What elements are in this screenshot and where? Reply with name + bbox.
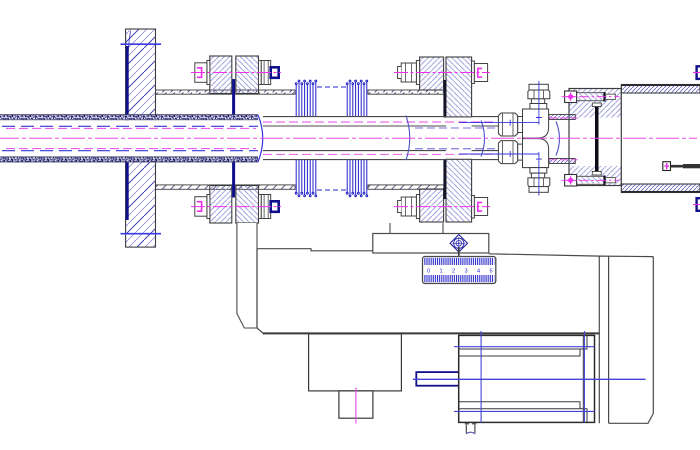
elbow fitting top [498, 84, 549, 138]
inner pipe top centerline [263, 121, 497, 123]
motor end cap inner line [582, 335, 584, 422]
flange pair F1 bottom left block [210, 186, 232, 224]
flange pair F1 bottom right block [236, 186, 259, 224]
flange pair F1 bottom bolt head [195, 197, 207, 217]
jacket hidden line bottom (blue dashed) [2, 150, 258, 152]
inner pipe hidden bore lines [415, 128, 497, 149]
jacket inner pipe centerline bottom (magenta dashed) [6, 148, 256, 150]
diaphragm stack [592, 103, 601, 175]
left flange thick weld edge [126, 46, 129, 220]
flange pair F2 bottom bolt centerline [394, 206, 490, 208]
flange pair F2 top right washer [472, 61, 475, 84]
left flange weld seam curve [128, 31, 131, 88]
main axis centerline (magenta) [0, 137, 697, 139]
bottom support arm (left segment) [156, 185, 296, 189]
flange pair F1 bottom left washer [207, 195, 210, 219]
indicator needle [457, 247, 460, 279]
flange pair F1 bottom bolt protruding end [271, 201, 279, 212]
motor vertical line right (blue) [583, 331, 585, 423]
flange pair F2 top right magenta socket [478, 68, 482, 77]
moving flange plate weld edge top [232, 79, 235, 120]
motor bottom cap lines [459, 402, 587, 423]
flange pair F1 bottom nut [261, 195, 270, 219]
support box under housing [309, 334, 402, 391]
jacket break arc [258, 115, 263, 162]
elbow bottom centerlines (blue) [459, 151, 542, 196]
flange pair F1 bottom right washer [259, 195, 262, 219]
flange pair F1 bottom bolt head magenta socket [197, 202, 202, 212]
motor axis line (blue) [413, 378, 646, 380]
position scale ruler [423, 257, 496, 284]
cylinder bolt bottom head [565, 175, 577, 187]
bellows hidden line top [317, 86, 346, 88]
bellows group 2 bottom [346, 160, 367, 197]
svg-text:5: 5 [489, 269, 492, 275]
flange pair F1 bottom bolt centerline [191, 206, 281, 208]
flange pair F2 top left block [420, 57, 444, 90]
flange pair F2 bottom left block [420, 189, 444, 222]
flange pair F1 top right washer [259, 61, 262, 85]
bellows group 2 top [346, 80, 367, 117]
flange pair F2 top left nut [398, 63, 417, 82]
svg-text:3: 3 [464, 269, 467, 275]
flange pair F1 top right block [236, 56, 259, 94]
flange pair F1 top nut [261, 61, 270, 85]
flange pair F2 top right nut [474, 64, 487, 82]
flange pair F1 top bolt protruding end [271, 67, 279, 78]
elbow top centerlines (blue) [459, 81, 542, 126]
flange pair F2 bottom right magenta socket [478, 202, 482, 211]
cylinder top wall (hatched) [621, 85, 700, 94]
flange pair F1 top bolt head magenta socket [197, 68, 202, 78]
flange pair F2 bottom left washer [416, 195, 419, 219]
left flange bottom bolt centerline [121, 233, 162, 235]
svg-text:4: 4 [477, 269, 480, 275]
top support arm (right segment) [368, 90, 446, 94]
piston screw [663, 162, 700, 171]
cylinder inlet stub top (hatched) [549, 115, 575, 120]
support box lower [339, 391, 373, 418]
motor coupler [416, 372, 460, 386]
left flange top bolt centerline [121, 43, 162, 45]
flange pair F2 top left washer [416, 61, 419, 85]
pipe break arc mid [406, 116, 410, 161]
flange pair F2 bottom left nut [398, 197, 417, 216]
cylinder bore break arc [556, 122, 560, 156]
flange pair F2 top right block [446, 57, 472, 117]
stub centerline bottom [549, 159, 578, 161]
right end partial bolt bottom [693, 198, 700, 211]
cylinder flange inner face [620, 93, 622, 184]
gearbox housing outline [257, 249, 653, 424]
motor cable gland foot [465, 424, 476, 434]
cylinder bolt bottom centerline [562, 179, 620, 181]
cylinder inlet stub bottom (hatched) [549, 159, 575, 164]
cylinder bolt top centerline [562, 96, 620, 98]
cylinder bottom wall (hatched) [621, 184, 700, 193]
jacket tube bottom wall (stippled) [0, 157, 258, 163]
cylinder bolt top head [565, 91, 577, 103]
flange neck left line [389, 223, 391, 234]
housing bottom edge [263, 332, 599, 334]
svg-text:1: 1 [439, 269, 442, 275]
flange pair F2 bottom right block [446, 159, 472, 222]
jacket tube top wall (stippled) [0, 115, 258, 121]
stub centerline top [549, 117, 578, 119]
cylinder bolt top channel [577, 92, 616, 102]
flange pair F2 top bolt centerline [394, 72, 490, 74]
flange pair F1 top bolt head [195, 63, 207, 83]
adjuster knob [450, 235, 467, 252]
bellows group 1 bottom [295, 160, 316, 197]
flange pair F2 bottom dark weld line [443, 160, 446, 200]
flange pair F1 top left block [210, 56, 232, 94]
flange neck right line [442, 223, 444, 234]
inner pipe walls [263, 117, 498, 160]
flange pair F2 bottom right nut [474, 198, 487, 216]
flange pair F1 top bolt centerline [191, 72, 281, 74]
flange pair F2 bottom right washer [472, 196, 475, 219]
motor tie-rod line bottom (blue) [454, 410, 595, 412]
bellows hidden line bottom [317, 189, 346, 191]
moving flange plate weld edge bottom [232, 157, 235, 198]
svg-text:0: 0 [427, 269, 430, 275]
motor vertical line left (blue) [480, 331, 482, 423]
cylinder flange (hatched) [569, 89, 621, 186]
jacket inner pipe centerline top (magenta dashed) [6, 127, 256, 129]
right end partial bolt top [693, 66, 700, 79]
bellows group 1 top [295, 80, 316, 117]
jacket tube interior [0, 120, 259, 156]
inner pipe bottom centerline [263, 153, 497, 155]
left fixed flange plate [126, 29, 156, 247]
support box centerline (magenta) [355, 388, 357, 424]
top support arm (left segment) [156, 90, 296, 94]
motor top cap lines [459, 335, 587, 356]
jacket hidden line top (blue dashed) [2, 125, 258, 127]
flange pair F1 top left washer [207, 61, 210, 85]
motor body [459, 335, 595, 422]
elbow fitting bottom [498, 139, 549, 193]
flange pair F2 top dark weld line [443, 80, 446, 118]
pipe break arc right [481, 121, 485, 157]
cylinder bolt bottom channel [577, 176, 616, 186]
housing hanger strip [237, 223, 257, 328]
bottom support arm (right segment) [368, 185, 446, 189]
motor tie-rod line top (blue) [454, 346, 595, 348]
svg-text:2: 2 [452, 269, 455, 275]
adjuster pedestal [373, 234, 489, 254]
